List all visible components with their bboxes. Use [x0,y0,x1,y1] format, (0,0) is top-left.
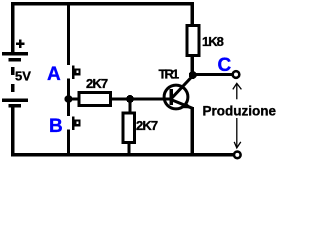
wire: R2 to bottom rail [127,144,130,154]
wire: divider node to resistor R1 [69,98,79,101]
resistor R2 2K7 (vertical) [123,113,135,143]
wire: tap node to resistor R2 [128,99,131,112]
wire: collector node to terminal C [193,73,233,76]
arrow up toward terminal C [233,83,242,99]
terminal: bottom output ring [234,152,241,159]
wire: R1 to transistor base [112,98,171,101]
battery BT1 (5V) [2,52,28,107]
wire: emitter to bottom rail [191,107,195,153]
wire: bottom rail [11,153,234,157]
svg-text:A: A [47,64,61,85]
arrow down toward bottom terminal [234,118,241,148]
node: base resistor tap junction [126,95,134,103]
wire: terminal A to divider node [67,78,70,116]
transistor TR1 (NPN) [164,76,193,109]
svg-text:B: B [49,116,63,137]
wire: terminal B to bottom rail [67,129,70,153]
svg-text:C: C [218,55,232,76]
wire: top rail to resistor R3 [191,2,195,24]
wire: input column, top rail to terminal A [67,2,70,65]
svg-text:TR1: TR1 [159,66,180,81]
wire: battery positive lead [11,2,15,52]
terminal A connector pin [72,66,81,80]
svg-text:2K7: 2K7 [136,118,158,133]
wire: top rail from battery to collector column [11,2,194,6]
battery BT1 plus sign [16,40,25,49]
resistor R1 2K7 (horizontal) [79,93,111,106]
terminal C output ring [233,71,240,78]
wire: battery negative lead [11,107,15,155]
svg-text:2K7: 2K7 [86,76,108,91]
node: collector junction [189,71,197,79]
svg-text:Produzione: Produzione [203,104,277,119]
resistor R3 1K8 [187,26,199,56]
node: divider junction [65,95,73,103]
svg-text:5V: 5V [15,68,31,83]
wire: R3 to collector node [191,57,195,74]
svg-text:1K8: 1K8 [202,34,224,49]
terminal B connector pin [72,117,81,131]
